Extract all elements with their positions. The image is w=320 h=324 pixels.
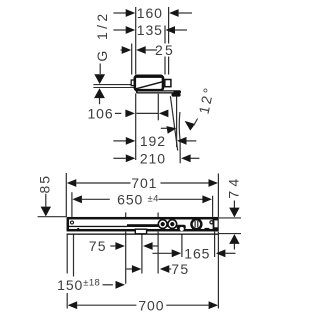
svg-text:210: 210 — [140, 150, 166, 166]
svg-text:75: 75 — [89, 238, 107, 254]
svg-text:165: 165 — [184, 245, 210, 261]
svg-text:25: 25 — [155, 42, 175, 58]
svg-text:74: 74 — [225, 175, 241, 199]
svg-text:701: 701 — [131, 175, 157, 191]
svg-text:85: 85 — [37, 174, 53, 194]
svg-text:106: 106 — [87, 106, 113, 122]
svg-text:192: 192 — [140, 133, 166, 149]
svg-text:700: 700 — [138, 297, 164, 313]
svg-text:G 1/2: G 1/2 — [94, 10, 110, 61]
svg-text:135: 135 — [137, 22, 163, 38]
svg-text:±18: ±18 — [83, 278, 100, 289]
svg-text:650: 650 — [117, 191, 143, 207]
svg-text:±4: ±4 — [148, 193, 159, 204]
svg-text:75: 75 — [171, 261, 189, 277]
svg-text:150: 150 — [57, 277, 83, 293]
svg-text:160: 160 — [137, 5, 163, 21]
